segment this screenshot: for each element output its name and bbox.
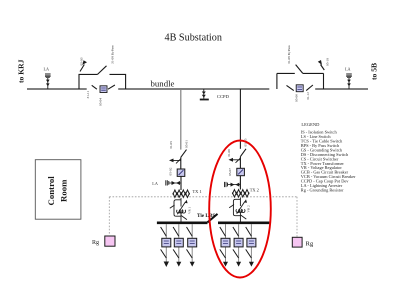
feeder group <box>161 224 256 267</box>
wire TX2 drop <box>239 89 241 149</box>
legend <box>301 122 356 193</box>
svg-text:LA: LA <box>345 67 351 72</box>
arrester LA left <box>45 74 51 89</box>
wire TX2 to transformer <box>239 176 241 190</box>
svg-text:Room: Room <box>59 179 69 202</box>
control room box <box>35 160 81 220</box>
wire right bypass loop <box>277 73 324 89</box>
svg-text:31-09 ByPass: 31-09 ByPass <box>287 45 291 64</box>
regulator VR1 <box>170 198 187 222</box>
svg-text:to KRJ: to KRJ <box>17 59 26 83</box>
switch DS left-main-right <box>108 85 115 89</box>
svg-text:to 5B: to 5B <box>370 63 379 80</box>
switch Tie LBS <box>208 214 218 222</box>
svg-text:VR 1: VR 1 <box>188 206 192 214</box>
LV bus right <box>218 222 269 225</box>
feeder F3 <box>187 224 197 267</box>
wire TX1 to transformer <box>180 176 182 190</box>
svg-text:05-10: 05-10 <box>326 58 330 66</box>
transformer TX2 <box>232 190 249 198</box>
switch DS TX1 <box>181 150 187 158</box>
wire main bus right segment <box>315 88 368 90</box>
breaker CS TX2 <box>237 168 245 175</box>
svg-text:TX 2: TX 2 <box>250 188 259 193</box>
svg-text:31-05: 31-05 <box>169 141 173 149</box>
switch GS TX1 (earth arrow) <box>173 159 181 164</box>
svg-text:Rg: Rg <box>306 241 314 248</box>
svg-text:TX 1: TX 1 <box>193 189 202 194</box>
svg-text:31-11: 31-11 <box>86 90 90 98</box>
svg-text:Rg - Grounding Resistor: Rg - Grounding Resistor <box>301 187 344 192</box>
arrester LA TX2 <box>225 182 241 187</box>
breaker GCB right-main <box>296 85 303 92</box>
switch DS TX2 <box>240 149 246 157</box>
wire TX2 mid <box>239 157 241 169</box>
switch GS right (earth arrow) <box>321 65 325 71</box>
svg-text:CCPD: CCPD <box>217 94 230 99</box>
svg-text:VR 2: VR 2 <box>247 205 251 213</box>
switch DS right-main-left <box>287 85 294 90</box>
wire main bus center segment <box>118 88 269 90</box>
svg-text:31-06: 31-06 <box>227 149 231 157</box>
arrester LA right <box>346 74 352 89</box>
wire main bus left segment <box>27 88 87 90</box>
wire TX1 drop <box>180 89 182 150</box>
svg-text:05-02: 05-02 <box>169 167 173 175</box>
regulator VR2 <box>229 198 246 222</box>
switch GS TX2 (earth arrow) <box>233 158 241 163</box>
breaker GCB left-main <box>100 86 107 93</box>
svg-text:Rg: Rg <box>92 240 99 246</box>
switch GS left (earth arrow) <box>80 65 84 72</box>
breaker CS TX1 <box>177 169 185 176</box>
svg-text:05-06: 05-06 <box>295 94 299 102</box>
feeder F2 <box>173 224 183 267</box>
resistor Rg right <box>292 237 302 247</box>
svg-text:bundle: bundle <box>151 79 175 89</box>
wire TX1 mid <box>180 157 182 169</box>
wire left bypass loop <box>79 74 126 89</box>
switch right bypass blade <box>296 65 303 74</box>
svg-text:Tie LBS: Tie LBS <box>197 213 215 219</box>
svg-text:LEGEND: LEGEND <box>301 122 320 127</box>
highlight ellipse <box>209 141 271 278</box>
svg-text:05-03: 05-03 <box>80 57 84 65</box>
dashed control wiring <box>109 197 297 238</box>
switch left bypass blade <box>98 66 107 75</box>
CCPD device <box>200 89 209 100</box>
svg-text:05-01: 05-01 <box>184 140 188 148</box>
resistor Rg left <box>105 236 115 246</box>
svg-text:05-07: 05-07 <box>228 168 232 176</box>
svg-text:LA: LA <box>44 67 50 72</box>
switch DS left-main-left <box>92 85 97 89</box>
svg-text:05-04: 05-04 <box>99 98 103 106</box>
transformer TX1 <box>173 190 190 198</box>
svg-text:4B Substation: 4B Substation <box>165 32 222 43</box>
feeder F4 <box>220 224 230 267</box>
switch DS right-main-right <box>306 85 313 91</box>
LV bus left <box>157 222 208 225</box>
feeder F6 <box>246 224 256 267</box>
svg-text:LA: LA <box>152 181 158 186</box>
svg-text:Control: Control <box>46 176 56 206</box>
feeder F1 <box>161 224 171 267</box>
feeder F5 <box>233 224 243 267</box>
svg-text:31-08 ByPass: 31-08 ByPass <box>111 45 115 64</box>
svg-text:31-12: 31-12 <box>306 92 310 100</box>
